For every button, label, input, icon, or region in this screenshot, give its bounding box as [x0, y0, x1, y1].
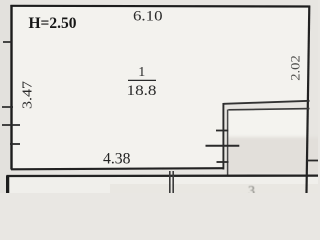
svg-text:4.38: 4.38: [103, 151, 131, 168]
dimension tick step wall lower: [217, 161, 229, 163]
dimension tick left wall middle: [2, 106, 13, 108]
wall room 1 bottom face: [11, 168, 224, 169]
wall step vertical inner face: [227, 110, 229, 177]
svg-text:2.02: 2.02: [289, 55, 303, 81]
wall step inner face: [228, 109, 309, 110]
svg-text:H=2.50: H=2.50: [29, 15, 77, 32]
svg-text:1: 1: [138, 65, 145, 80]
bottom scan wash: [110, 184, 318, 193]
wall lower partition left face: [169, 171, 171, 193]
dimension tick step wall long: [206, 145, 240, 147]
wall lower rooms top face: [7, 174, 319, 177]
wall left exterior: [10, 5, 12, 170]
dimension tick left wall lower: [10, 143, 20, 145]
wall step vertical outer face: [222, 103, 224, 170]
dimension tick right wall: [307, 160, 318, 162]
wall right exterior: [307, 6, 310, 194]
lower rooms interior: [9, 177, 318, 193]
room 1 fraction line: [128, 79, 156, 81]
wall top exterior: [10, 5, 310, 8]
notch interior right of step wall: [229, 110, 309, 175]
wall lower partition right face: [172, 171, 174, 193]
paper background: [0, 0, 318, 193]
wall step outer face: [224, 101, 310, 104]
svg-text:3.47: 3.47: [21, 81, 36, 109]
svg-text:3: 3: [248, 184, 255, 193]
svg-text:18.8: 18.8: [127, 83, 157, 99]
dimension tick left wall crossing: [2, 124, 20, 126]
wall lower-left vertical: [6, 176, 9, 194]
dimension tick step wall upper: [216, 130, 228, 132]
left exterior strip: [0, 0, 10, 193]
room 1 interior: [12, 7, 309, 169]
dimension tick left wall upper: [3, 41, 12, 43]
grey smudge in notch: [227, 137, 320, 175]
svg-text:6.10: 6.10: [133, 9, 163, 25]
